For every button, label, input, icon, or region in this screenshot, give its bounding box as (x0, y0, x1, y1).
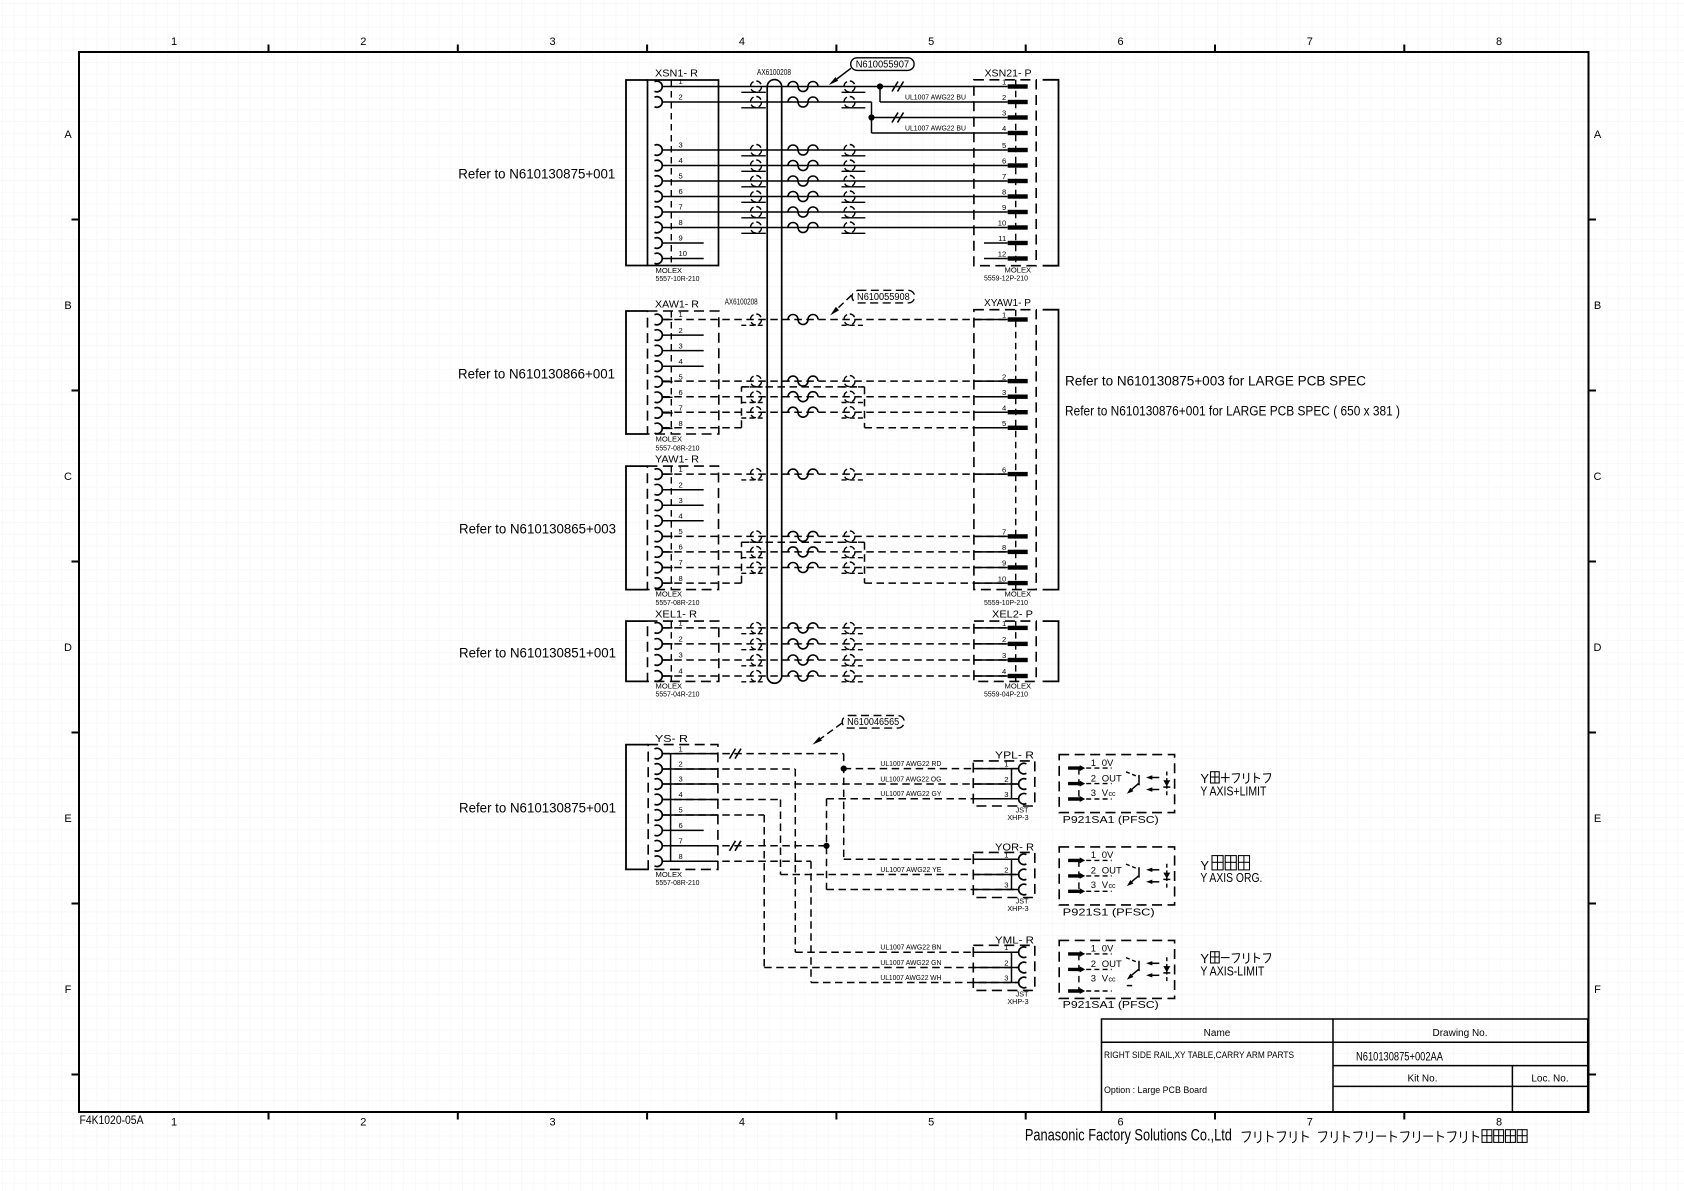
YML-R pin 2 socket and number (1004, 959, 1026, 973)
YS-R pin 3 socket and number (655, 775, 683, 790)
svg-text:2: 2 (1091, 959, 1096, 970)
XAW1-R pin 1 socket and number (655, 310, 683, 325)
bracket ] right of connector XEL2-P (1043, 621, 1059, 681)
wire XSN1 pin6 to XSN21 pin8 (662, 191, 1007, 202)
sensor pin bars (1068, 857, 1085, 894)
svg-text:3: 3 (1004, 974, 1008, 983)
svg-text:C: C (64, 471, 72, 483)
XSN21-P pin 3 contact bar and number (1002, 109, 1028, 120)
svg-text:P921SA1 (PFSC): P921SA1 (PFSC) (1063, 999, 1159, 1011)
YPL-R solid pin leads inside body (973, 769, 1018, 799)
svg-text:YS- R: YS- R (655, 733, 688, 745)
svg-text:4: 4 (679, 667, 683, 676)
svg-text:6: 6 (679, 187, 683, 196)
svg-text:B: B (64, 300, 71, 312)
svg-text:C: C (1594, 471, 1602, 483)
svg-text:XHP-3: XHP-3 (1007, 813, 1028, 822)
row tick marks right (1589, 220, 1597, 1075)
svg-text:P921S1 (PFSC): P921S1 (PFSC) (1063, 907, 1155, 919)
svg-text:6: 6 (1117, 36, 1123, 48)
XSN21-P pin 1 contact bar and number (1002, 78, 1028, 89)
svg-text:N610130875+002AA: N610130875+002AA (1356, 1052, 1443, 1064)
YOR-R pin 2 socket and number (1004, 866, 1026, 880)
svg-text:3: 3 (1091, 974, 1096, 985)
svg-text:1: 1 (1004, 850, 1008, 859)
svg-text:0V: 0V (1102, 758, 1114, 769)
YAW1-R pin 1 socket and number (655, 465, 683, 480)
svg-text:UL1007 AWG22 BU: UL1007 AWG22 BU (905, 94, 966, 101)
svg-text:5: 5 (679, 527, 683, 536)
svg-text:5559-04P-210: 5559-04P-210 (984, 690, 1028, 699)
svg-text:1: 1 (1002, 78, 1006, 87)
YML-R solid pin leads inside body (973, 952, 1018, 982)
svg-text:2: 2 (679, 326, 683, 335)
XAW1-R pin 4 stub wire (662, 365, 703, 367)
svg-text:3: 3 (1091, 880, 1096, 891)
YAW1-R MOLEX part labels (656, 590, 700, 607)
XEL1-R MOLEX part labels (656, 682, 700, 699)
svg-text:6: 6 (679, 543, 683, 552)
svg-text:Y AXIS ORG.: Y AXIS ORG. (1200, 871, 1262, 885)
svg-text:3: 3 (1004, 790, 1008, 799)
XEL1-R solid pin leads inside body (662, 628, 672, 676)
svg-text:XSN21- P: XSN21- P (985, 68, 1032, 80)
svg-text:UL1007 AWG22 YE: UL1007 AWG22 YE (880, 867, 941, 874)
svg-text:F4K1020-05A: F4K1020-05A (80, 1115, 144, 1127)
svg-text:N610046565: N610046565 (847, 717, 900, 728)
sensor box outline (P921 series #2) (1059, 847, 1174, 905)
svg-text:2: 2 (1091, 773, 1096, 784)
svg-text:5: 5 (679, 806, 683, 815)
wire XSN1 pin2 toward XSN21 pins 3/4 (662, 97, 871, 134)
XEL2-P pin 3 contact bar and number (1002, 651, 1028, 662)
XSN21-P pin 7 contact bar and number (1002, 172, 1028, 183)
svg-text:1: 1 (1002, 619, 1006, 628)
sensor box outline (P921 series #3) (1059, 940, 1174, 998)
svg-text:B: B (1594, 300, 1601, 312)
svg-text:1: 1 (679, 744, 683, 753)
row labels right (1594, 129, 1602, 996)
XSN21-P pin 11 contact bar and number (998, 234, 1027, 245)
svg-text:7: 7 (679, 203, 683, 212)
svg-text:7: 7 (679, 404, 683, 413)
XYAW1-P pin 8 contact bar and number (1002, 543, 1028, 554)
YAW1-R pin 5 socket and number (655, 527, 683, 542)
XEL2-P pin 4 contact bar and number (1002, 667, 1028, 678)
LED (emitter diode) (1163, 957, 1170, 982)
XSN21-P pin 2 contact bar and number (1002, 93, 1028, 104)
jumper wire from junction to XSN21 pin2, UL1007 AWG22 BU (880, 87, 1008, 103)
svg-text:1: 1 (1004, 760, 1008, 769)
svg-text:1: 1 (679, 77, 683, 86)
wire YS pin8 to YML pin3 (662, 861, 1018, 982)
svg-text:1: 1 (1091, 850, 1096, 861)
svg-text:0V: 0V (1102, 850, 1114, 861)
svg-text:RIGHT SIDE RAIL,XY TABLE,CARRY: RIGHT SIDE RAIL,XY TABLE,CARRY ARM PARTS (1104, 1050, 1294, 1060)
svg-text:XSN1- R: XSN1- R (655, 68, 698, 80)
svg-text:UL1007 AWG22 BN: UL1007 AWG22 BN (880, 945, 941, 952)
crossover mark // on branch to pin3 (892, 113, 898, 123)
svg-text:11: 11 (998, 234, 1006, 243)
svg-text:3: 3 (1002, 109, 1006, 118)
svg-text:10: 10 (998, 574, 1006, 583)
svg-text:A: A (64, 129, 72, 141)
sensor pin 2 line and label 2 OUT (1086, 959, 1122, 970)
svg-text:Refer to N610130875+001: Refer to N610130875+001 (458, 167, 615, 182)
svg-text:2: 2 (1002, 93, 1006, 102)
svg-text:XYAW1- P: XYAW1- P (984, 297, 1031, 309)
YS-R pin 7 socket and number (655, 837, 683, 852)
svg-text:2: 2 (1002, 635, 1006, 644)
svg-text:MOLEX: MOLEX (656, 435, 683, 444)
wire XEL1 pin1 to XEL2 pin1 (662, 622, 1007, 633)
svg-text:Refer to N610130875+003 for LA: Refer to N610130875+003 for LARGE PCB SP… (1065, 374, 1366, 389)
svg-text:Drawing No.: Drawing No. (1432, 1028, 1487, 1039)
callout balloon N610055908 (830, 290, 915, 315)
svg-text:1: 1 (679, 310, 683, 319)
svg-text:1: 1 (1002, 311, 1006, 320)
YPL-R pin 1 socket and number (1004, 760, 1026, 774)
svg-text:4: 4 (679, 790, 683, 799)
svg-text:1: 1 (171, 1117, 177, 1129)
svg-text:6: 6 (679, 388, 683, 397)
svg-text:OUT: OUT (1102, 773, 1122, 784)
svg-text:7: 7 (1307, 1117, 1313, 1129)
svg-text:AX6100208: AX6100208 (757, 68, 791, 77)
svg-text:XHP-3: XHP-3 (1007, 997, 1028, 1006)
YPL-R JST XHP-3 part labels (1007, 806, 1029, 823)
XYAW1-P pin 6 contact bar and number (1002, 465, 1028, 476)
svg-text:7: 7 (679, 558, 683, 567)
XYAW1-P pin 5 contact bar and number (1002, 419, 1028, 430)
wire YAW1 pin8 to XYAW1 pin10 (rerouted through bundle) (662, 542, 1007, 583)
svg-text:3: 3 (1002, 651, 1006, 660)
branch wire to XSN21 pin3 (872, 117, 1008, 119)
connector YML-R body (973, 945, 1035, 990)
svg-text:5557-10R-210: 5557-10R-210 (656, 274, 700, 283)
svg-text:N610055907: N610055907 (856, 60, 909, 71)
XAW1-R pin 3 stub wire (662, 350, 703, 352)
sensor pin bars (1068, 951, 1085, 994)
svg-text:6: 6 (1002, 157, 1006, 166)
wire YS pin1 (0V) to YPL pin1 / YOR pin1 (662, 749, 1018, 860)
wire YAW1 pin5 to XYAW1 pin7 (662, 531, 1007, 542)
XAW1-R pin 2 stub wire (662, 334, 703, 336)
wire XSN1 pin4 to XSN21 pin6 (662, 160, 1007, 171)
XAW1-R pin 3 socket and number (655, 341, 683, 356)
bracket ] right of connector XYAW1-P (1043, 310, 1059, 590)
svg-text:5559-12P-210: 5559-12P-210 (984, 274, 1028, 283)
XEL1-R pin 1 socket and number (655, 619, 683, 634)
connector XEL1-R body (648, 621, 719, 681)
connector XAW1-R body (648, 311, 719, 434)
YOR-R pin 1 socket and number (1004, 850, 1026, 864)
XAW1-R pin 8 socket and number (655, 419, 683, 434)
XSN21-P MOLEX part labels (984, 266, 1031, 283)
connector XEL2-P body (974, 621, 1036, 681)
svg-text:OUT: OUT (1102, 959, 1122, 970)
svg-text:Refer to N610130876+001 for LA: Refer to N610130876+001 for LARGE PCB SP… (1065, 404, 1400, 419)
bracket [ left of connector XEL1-R (626, 621, 648, 681)
svg-text:8: 8 (679, 574, 683, 583)
svg-text:XAW1- R: XAW1- R (655, 299, 699, 311)
XEL1-R pin 4 socket and number (655, 667, 683, 682)
svg-text:UL1007 AWG22 BU: UL1007 AWG22 BU (905, 125, 966, 132)
svg-text:5557-08R-210: 5557-08R-210 (656, 444, 700, 453)
YS-R pin 5 socket and number (655, 806, 683, 821)
company name Japanese (1242, 1131, 1251, 1134)
svg-text:1: 1 (1091, 758, 1096, 769)
extra emitter dash (box 3) (1127, 985, 1132, 987)
svg-text:Option : Large PCB Board: Option : Large PCB Board (1104, 1085, 1207, 1095)
YAW1-R pin 7 socket and number (655, 558, 683, 573)
svg-text:2: 2 (1091, 866, 1096, 877)
svg-text:3: 3 (550, 36, 556, 48)
bracket ] right of connector XSN21-P (1043, 80, 1059, 266)
junction dot on pin2 branch (868, 114, 874, 120)
svg-text:F: F (65, 984, 72, 996)
svg-text:4: 4 (679, 512, 683, 521)
svg-text:Kit No.: Kit No. (1407, 1074, 1437, 1085)
svg-text:D: D (1594, 642, 1602, 654)
svg-text:2: 2 (679, 760, 683, 769)
photo-transistor (1126, 772, 1139, 794)
svg-text:UL1007 AWG22 GY: UL1007 AWG22 GY (880, 791, 941, 798)
XSN21-P pin 8 contact bar and number (1002, 188, 1028, 199)
svg-text:Refer to N610130865+003: Refer to N610130865+003 (459, 522, 616, 537)
XSN1-R pin 1 socket and number (655, 77, 683, 92)
svg-text:7: 7 (679, 837, 683, 846)
svg-text:4: 4 (1002, 403, 1006, 412)
photo-transistor (1126, 958, 1139, 980)
XYAW1-P pin 1 contact bar and number (1002, 311, 1028, 322)
svg-text:Refer to N610130866+001: Refer to N610130866+001 (458, 367, 615, 382)
wire YS pin4 to YOR pin2 (662, 800, 1018, 875)
svg-text:12: 12 (998, 250, 1006, 259)
svg-text:YML- R: YML- R (995, 935, 1034, 947)
YAW1-R pin 2 socket and number (655, 480, 683, 495)
wire YS pin7 (Vcc) to YPL pin3 / YOR pin3 (662, 799, 1018, 890)
XYAW1-P pin 4 contact bar and number (1002, 403, 1028, 414)
svg-text:9: 9 (1002, 559, 1006, 568)
column tick marks top (269, 45, 1405, 53)
svg-text:E: E (64, 813, 71, 825)
XSN21-P pin 12 stub wire (984, 258, 1008, 260)
YS-R pin 2 socket and number (655, 760, 683, 775)
YS-R pin 6 stub wire (662, 829, 703, 831)
XAW1-R pin 4 socket and number (655, 357, 683, 372)
XSN21-P pin 9 contact bar and number (1002, 203, 1028, 214)
light arrows from LED to transistor (1146, 961, 1159, 977)
svg-text:UL1007 AWG22 GN: UL1007 AWG22 GN (880, 960, 941, 967)
YS-R pin 1 socket and number (655, 744, 683, 759)
svg-text:2: 2 (360, 36, 366, 48)
svg-text:2: 2 (679, 480, 683, 489)
XEL2-P solid pin leads inside body (974, 628, 1008, 676)
svg-text:4: 4 (1002, 124, 1006, 133)
bracket [ left of connector XSN1-R (626, 80, 648, 266)
cable bundle sheath (stadium) for cable AX6100208 (767, 80, 782, 684)
column tick marks bottom (269, 1112, 1405, 1120)
junction dot Vcc branch (823, 843, 829, 849)
svg-text:Refer to N610130875+001: Refer to N610130875+001 (459, 801, 616, 816)
photo-transistor (1126, 864, 1139, 886)
YAW1-R pin 2 stub wire (662, 489, 703, 491)
label Y axis + limit (Japanese) (1200, 771, 1270, 786)
sensor pin 3 line and label 3 Vcc (1086, 974, 1116, 991)
svg-text:3: 3 (679, 496, 683, 505)
XSN21-P pin 5 contact bar and number (1002, 141, 1028, 152)
svg-text:8: 8 (679, 419, 683, 428)
svg-text:YAW1- R: YAW1- R (655, 454, 699, 466)
wire XSN1 pin3 to XSN21 pin5 (662, 145, 1007, 156)
XSN1-R MOLEX part labels (656, 266, 700, 283)
svg-text:1: 1 (1004, 943, 1008, 952)
sensor pin 2 line and label 2 OUT (1086, 866, 1122, 877)
XSN1-R pin 3 socket and number (655, 141, 683, 156)
connector YPL-R body (973, 761, 1035, 806)
svg-text:cc: cc (1109, 791, 1117, 798)
YS-R pin solid leads inside body (662, 754, 718, 862)
svg-text:7: 7 (1002, 528, 1006, 537)
svg-text:3: 3 (550, 1117, 556, 1129)
svg-text:9: 9 (679, 234, 683, 243)
svg-text:4: 4 (739, 36, 745, 48)
LED (emitter diode) (1163, 864, 1170, 889)
svg-text:1: 1 (679, 465, 683, 474)
svg-text:8: 8 (679, 852, 683, 861)
svg-text:5557-04R-210: 5557-04R-210 (656, 690, 700, 699)
label Y axis origin (Japanese) (1200, 856, 1249, 873)
svg-text:1: 1 (171, 36, 177, 48)
svg-text:6: 6 (1002, 465, 1006, 474)
XAW1-R pin 7 socket and number (655, 404, 683, 419)
svg-text:2: 2 (1004, 775, 1008, 784)
svg-text:XEL1- R: XEL1- R (655, 609, 697, 621)
svg-text:9: 9 (1002, 203, 1006, 212)
border frame (79, 52, 1589, 1112)
svg-text:4: 4 (739, 1117, 745, 1129)
column labels top (171, 36, 1502, 48)
svg-text:0V: 0V (1102, 944, 1114, 955)
label Y axis - limit (Japanese) (1200, 951, 1270, 966)
svg-text:Name: Name (1204, 1028, 1231, 1039)
connector XYAW1-P body (974, 310, 1036, 590)
bracket [ left of connector YS-R (626, 745, 648, 870)
XYAW1-P pin 10 contact bar and number (998, 574, 1028, 585)
svg-text:3: 3 (1004, 881, 1008, 890)
wire YAW1 pin1 to XYAW1 pin6 (662, 469, 1007, 480)
wire XAW1 pin8 to XYAW1 pin5 (rerouted through bundle) (662, 387, 1007, 428)
YAW1-R pin 3 socket and number (655, 496, 683, 511)
light arrows from LED to transistor (1146, 868, 1159, 884)
wire XAW1 pin1 to XYAW1 pin1 (662, 314, 1007, 325)
svg-text:2: 2 (360, 1117, 366, 1129)
YAW1-R pin 8 socket and number (655, 574, 683, 589)
YPL-R pin 3 socket and number (1004, 790, 1026, 804)
sensor pin 3 line and label 3 Vcc (1086, 788, 1116, 799)
XSN1-R pin 2 socket and number (655, 93, 683, 108)
XSN1-R pin 8 socket and number (655, 218, 683, 233)
svg-text:7: 7 (1002, 172, 1006, 181)
XSN1-R pin 9 socket and number (655, 234, 683, 249)
svg-text:AX6100208: AX6100208 (725, 298, 758, 307)
svg-text:UL1007 AWG22 WH: UL1007 AWG22 WH (880, 975, 941, 982)
svg-text:Y AXIS-LIMIT: Y AXIS-LIMIT (1200, 965, 1264, 979)
svg-text:P921SA1 (PFSC): P921SA1 (PFSC) (1063, 814, 1159, 826)
svg-text:5557-08R-210: 5557-08R-210 (656, 878, 700, 887)
svg-text:OUT: OUT (1102, 866, 1122, 877)
branch wire to XSN21 pin4, UL1007 AWG22 BU (872, 125, 1008, 133)
XSN1-R pin 5 socket and number (655, 172, 683, 187)
svg-text:3: 3 (679, 651, 683, 660)
svg-text:6: 6 (679, 821, 683, 830)
sensor box outline (P921 series #1) (1059, 755, 1174, 813)
wire XSN1 pin5 to XSN21 pin7 (662, 176, 1007, 187)
row labels left (64, 129, 72, 996)
wire XEL1 pin3 to XEL2 pin3 (662, 655, 1007, 666)
svg-text:3: 3 (679, 775, 683, 784)
XSN21-P pin 6 contact bar and number (1002, 157, 1028, 168)
wire YAW1 pin7 to XYAW1 pin9 (662, 562, 1007, 573)
YOR-R JST XHP-3 part labels (1007, 896, 1029, 913)
callout balloon N610046565 (813, 716, 905, 745)
svg-text:8: 8 (1496, 36, 1502, 48)
svg-text:YPL- R: YPL- R (995, 750, 1034, 762)
XSN1-R pin 6 socket and number (655, 187, 683, 202)
XYAW1-P pin 3 contact bar and number (1002, 388, 1028, 399)
XSN21-P pin 4 contact bar and number (1002, 124, 1028, 135)
YS-R pin 4 socket and number (655, 790, 683, 805)
svg-text:5: 5 (928, 1117, 934, 1129)
YML-R pin 1 socket and number (1004, 943, 1026, 957)
light arrows from LED to transistor (1146, 775, 1159, 791)
XSN1-R pin 10 socket and number (655, 249, 687, 264)
svg-text:8: 8 (1496, 1117, 1502, 1129)
YAW1-R pin 4 socket and number (655, 512, 683, 527)
svg-text:5: 5 (679, 372, 683, 381)
XYAW1-P MOLEX part labels (984, 590, 1031, 607)
wire YS pin5 to YML pin2 (662, 815, 1018, 968)
YAW1-R pin 6 socket and number (655, 543, 683, 558)
YS-R pin 8 socket and number (655, 852, 683, 867)
wire XEL1 pin4 to XEL2 pin4 (662, 671, 1007, 682)
YS-R pin 6 socket and number (655, 821, 683, 836)
XAW1-R pin 6 socket and number (655, 388, 683, 403)
svg-text:Y AXIS+LIMIT: Y AXIS+LIMIT (1200, 785, 1266, 799)
svg-text:2: 2 (1004, 866, 1008, 875)
connector XSN21-P body (974, 80, 1036, 266)
svg-text:10: 10 (998, 219, 1006, 228)
svg-text:UL1007 AWG22 OG: UL1007 AWG22 OG (880, 776, 941, 783)
XAW1-R solid pin leads inside body (662, 320, 672, 429)
YAW1-R solid pin leads inside body (662, 474, 672, 583)
YAW1-R pin 3 stub wire (662, 504, 703, 506)
XSN21-P pin 12 contact bar and number (998, 250, 1028, 261)
XYAW1-P pin 7 contact bar and number (1002, 528, 1028, 539)
XYAW1-P solid pin leads inside body (974, 320, 1008, 584)
XSN1-R pin 9 stub wire (662, 242, 703, 244)
svg-text:A: A (1594, 129, 1602, 141)
sensor pin 1 line and label 1 0V (1086, 758, 1114, 769)
svg-text:XEL2- P: XEL2- P (992, 609, 1033, 621)
XEL2-P pin 2 contact bar and number (1002, 635, 1028, 646)
svg-text:3: 3 (679, 141, 683, 150)
svg-text:5559-10P-210: 5559-10P-210 (984, 598, 1028, 607)
svg-text:8: 8 (1002, 543, 1006, 552)
XYAW1-P pin 9 contact bar and number (1002, 559, 1028, 570)
sensor pin 2 line and label 2 OUT (1086, 773, 1122, 784)
